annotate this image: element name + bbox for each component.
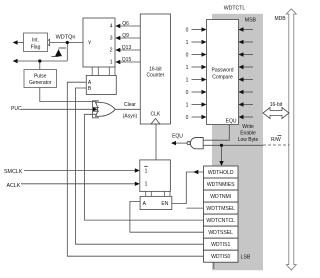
svg-text:1: 1 bbox=[145, 181, 148, 187]
svg-text:Q9: Q9 bbox=[122, 33, 129, 39]
svg-text:Password: Password bbox=[212, 68, 234, 74]
svg-text:WDTQn: WDTQn bbox=[56, 34, 76, 40]
svg-text:Q15: Q15 bbox=[122, 57, 132, 63]
svg-text:16-bit: 16-bit bbox=[270, 102, 283, 108]
svg-text:WDTHOLD: WDTHOLD bbox=[208, 170, 234, 176]
svg-text:0: 0 bbox=[186, 53, 189, 59]
svg-text:Compare: Compare bbox=[212, 75, 233, 81]
svg-text:Q6: Q6 bbox=[122, 21, 129, 27]
svg-text:Q13: Q13 bbox=[122, 45, 132, 51]
svg-text:Int.: Int. bbox=[32, 38, 39, 44]
svg-text:Flag: Flag bbox=[31, 45, 41, 51]
svg-text:WDTNMIES: WDTNMIES bbox=[207, 182, 235, 188]
svg-text:LSB: LSB bbox=[241, 254, 251, 260]
svg-text:1: 1 bbox=[186, 65, 189, 71]
svg-text:1: 1 bbox=[110, 60, 113, 66]
svg-text:EQU: EQU bbox=[226, 119, 237, 125]
svg-text:WDTSSEL: WDTSSEL bbox=[208, 230, 233, 236]
svg-text:ACLK: ACLK bbox=[7, 183, 21, 189]
svg-text:Low Byte: Low Byte bbox=[238, 137, 259, 143]
svg-text:3: 3 bbox=[110, 36, 113, 42]
svg-text:WDTTMSEL: WDTTMSEL bbox=[206, 206, 235, 212]
svg-text:MDB: MDB bbox=[274, 16, 286, 22]
svg-text:Generator: Generator bbox=[29, 80, 52, 86]
svg-text:EN: EN bbox=[161, 201, 168, 207]
svg-text:R/W: R/W bbox=[271, 137, 281, 143]
svg-text:MSB: MSB bbox=[245, 18, 257, 24]
svg-text:1: 1 bbox=[186, 78, 189, 84]
svg-text:Write: Write bbox=[242, 124, 254, 130]
svg-text:(Asyn): (Asyn) bbox=[123, 114, 138, 120]
svg-text:0: 0 bbox=[186, 90, 189, 96]
svg-text:WDTIS0: WDTIS0 bbox=[211, 254, 230, 260]
svg-text:1: 1 bbox=[186, 103, 189, 109]
svg-text:Counter: Counter bbox=[147, 73, 165, 79]
svg-text:PUC: PUC bbox=[11, 106, 22, 112]
svg-text:4: 4 bbox=[110, 24, 113, 30]
svg-text:WDTNMI: WDTNMI bbox=[210, 194, 231, 200]
svg-text:Pulse: Pulse bbox=[34, 73, 47, 79]
svg-text:16-bit: 16-bit bbox=[149, 66, 162, 72]
svg-text:SMCLK: SMCLK bbox=[4, 169, 23, 175]
svg-text:1: 1 bbox=[186, 40, 189, 46]
svg-text:WDTCNTCL: WDTCNTCL bbox=[206, 218, 235, 224]
svg-text:EQU: EQU bbox=[172, 134, 183, 140]
svg-text:0: 0 bbox=[186, 28, 189, 34]
svg-text:0: 0 bbox=[186, 115, 189, 121]
svg-text:WDTCTL: WDTCTL bbox=[224, 5, 246, 11]
svg-text:CLK: CLK bbox=[151, 112, 161, 118]
svg-text:2: 2 bbox=[110, 48, 113, 54]
svg-text:Clear: Clear bbox=[124, 102, 136, 108]
svg-text:WDTIS1: WDTIS1 bbox=[211, 242, 230, 248]
svg-text:Enable: Enable bbox=[240, 131, 256, 137]
svg-text:1: 1 bbox=[145, 168, 148, 174]
